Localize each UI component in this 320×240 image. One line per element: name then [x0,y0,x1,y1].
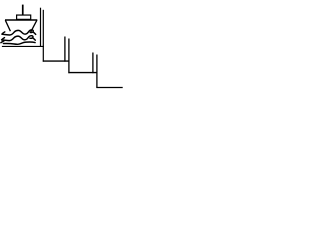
lock gate pair 3 right line / riser 3 [96,55,98,88]
ship hull left side [5,20,10,31]
ship deck line [5,19,37,21]
ship cabin [17,15,31,19]
lock gate pair 1 right line / riser 1 [42,10,44,62]
lock gate pair 2 left line [64,37,66,62]
ship hull right side [31,20,37,32]
ship mast [22,5,24,15]
step line 3 [68,72,97,74]
lock gate pair 3 left line [92,53,94,74]
wave line 1 [2,30,36,35]
step line 2 [43,60,70,62]
lock gate pair 2 right line / riser 2 [68,39,70,74]
wave line 2 [2,36,36,41]
wave line 3 [1,41,35,45]
lock gate pair 1 left line [40,8,42,47]
step line 4 (bottom level) [96,87,122,89]
step line 1 (top chamber floor) [2,45,44,47]
